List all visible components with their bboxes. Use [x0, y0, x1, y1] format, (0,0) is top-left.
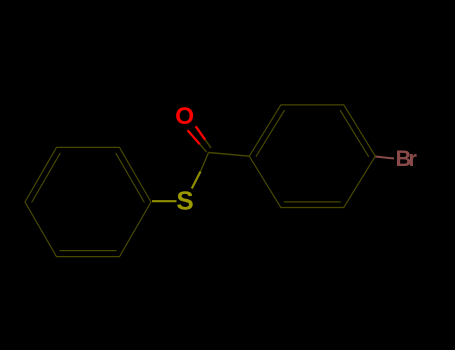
- bond: left ring to S: [152, 200, 177, 202]
- bond: S to carbonyl C (bright half): [192, 172, 201, 189]
- bond: right ring to Br: [376, 157, 395, 159]
- svg-text:O: O: [175, 103, 194, 130]
- C=O double bond: [188, 126, 206, 144]
- C=O double bond, carbon-side dark half: [200, 140, 211, 152]
- svg-text:S: S: [176, 186, 193, 216]
- bond: S to carbonyl C (dark half): [201, 153, 209, 172]
- right benzene ring: [249, 105, 375, 208]
- left phenyl ring: [25, 147, 151, 256]
- bond: carbonyl C to right ring: [209, 153, 250, 157]
